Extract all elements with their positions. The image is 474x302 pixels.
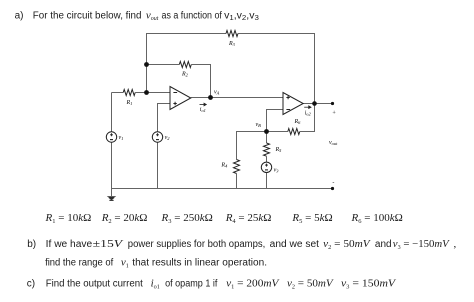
svg-text:v1 = 200mV: v1 = 200mV [226, 278, 280, 291]
svg-text:,: , [454, 238, 457, 250]
resistor R4 [234, 160, 240, 174]
svg-text:v1,v2,v3: v1,v2,v3 [224, 11, 259, 23]
op-amp U2 [283, 93, 303, 115]
svg-text:a): a) [15, 11, 24, 22]
current arrow io1 [200, 103, 207, 106]
wire: ground bus [112, 188, 333, 190]
svg-text:of opamp 1 if: of opamp 1 if [165, 279, 218, 290]
svg-text:R4: R4 [220, 163, 228, 169]
svg-text:v3 = 150mV: v3 = 150mV [341, 278, 396, 291]
wire: R2 feedback branch [147, 64, 180, 66]
source v1 [106, 132, 116, 142]
svg-text:v3: v3 [274, 167, 280, 173]
op-amp U1 [170, 87, 191, 110]
svg-text:+: + [332, 111, 336, 117]
wire: top feedback right segment [238, 34, 315, 104]
wire: op-amp1 + input [158, 104, 171, 132]
svg-text:as a function of: as a function of [162, 11, 223, 22]
resistor R5 [264, 143, 270, 156]
wire: R5 to v3 [266, 156, 268, 162]
wire: R1 to inverting input [135, 92, 170, 94]
svg-text:R6: R6 [294, 119, 302, 125]
wire: op-amp1 output to op-amp2 + input [191, 97, 283, 99]
svg-text:R2: R2 [181, 72, 189, 78]
source v2 [152, 132, 162, 142]
svg-text:v2: v2 [165, 135, 171, 141]
svg-text:v1: v1 [119, 135, 124, 141]
svg-text:Find the output current: Find the output current [46, 279, 143, 290]
wire: top feedback left segment [147, 34, 227, 93]
svg-text:find the range of: find the range of [45, 258, 113, 269]
node: inverting input of U1 [144, 90, 149, 95]
wire: R4 to ground bus [236, 174, 238, 189]
node vB [264, 129, 269, 134]
svg-text:c): c) [27, 279, 35, 290]
wire: vB to R5 [266, 132, 268, 144]
resistor R6 [288, 129, 300, 135]
source v3 [261, 162, 271, 172]
wire: R6 to output [300, 104, 315, 132]
svg-text:vB: vB [256, 122, 262, 128]
wire: R1 input [112, 92, 124, 94]
wire: R2 to node vA [191, 65, 210, 98]
wire: v2 to ground bus [157, 142, 159, 188]
node: junction at R2/top feedback [144, 62, 149, 67]
svg-text:v3 = −150mV: v3 = −150mV [393, 238, 450, 251]
wire: v1 branch [111, 93, 113, 132]
node: op-amp2 output junction [312, 101, 317, 106]
svg-text:that results in linear operati: that results in linear operation. [132, 258, 267, 269]
wire: v1 to ground bus [111, 142, 113, 188]
wire: ground stub [111, 189, 113, 197]
svg-text:io2: io2 [305, 110, 312, 116]
svg-text:R1 = 10kΩ: R1 = 10kΩ [45, 212, 92, 225]
svg-text:R4 = 25kΩ: R4 = 25kΩ [225, 212, 272, 225]
svg-text:and we set: and we set [270, 239, 320, 250]
svg-text:R5: R5 [275, 147, 283, 153]
terminal: vout + [331, 102, 334, 105]
ground [107, 196, 116, 201]
svg-text:vout: vout [329, 140, 338, 146]
svg-text:R2 = 20kΩ: R2 = 20kΩ [101, 212, 148, 225]
svg-text:If we have: If we have [46, 239, 93, 250]
wire: vB to R4 [237, 132, 267, 160]
wire: op-amp2 - input to node vB [267, 110, 284, 132]
svg-text:R1: R1 [126, 100, 133, 106]
svg-text:io1: io1 [200, 107, 206, 113]
wire: v3 to ground bus [266, 173, 268, 189]
svg-text:R5 = 5kΩ: R5 = 5kΩ [291, 212, 332, 225]
resistor R3 [226, 31, 238, 37]
terminal: vout - [331, 187, 334, 190]
svg-text:v2 = 50mV: v2 = 50mV [287, 278, 334, 291]
svg-text:R3: R3 [228, 41, 236, 47]
wire: vB to R6 [267, 131, 288, 133]
svg-text:power supplies for both opamps: power supplies for both opamps, [128, 239, 265, 250]
node vA [208, 95, 213, 100]
resistor R2 [179, 62, 191, 68]
svg-text:±15V: ±15V [93, 238, 124, 250]
svg-text:vA: vA [214, 89, 220, 95]
current arrow io2 [304, 106, 311, 109]
svg-text:and: and [375, 239, 392, 250]
svg-text:-: - [332, 180, 334, 186]
resistor R1 [123, 90, 135, 96]
svg-text:b): b) [27, 239, 36, 250]
wire: op-amp2 output [303, 103, 332, 105]
svg-text:For the circuit below, find: For the circuit below, find [33, 11, 142, 22]
